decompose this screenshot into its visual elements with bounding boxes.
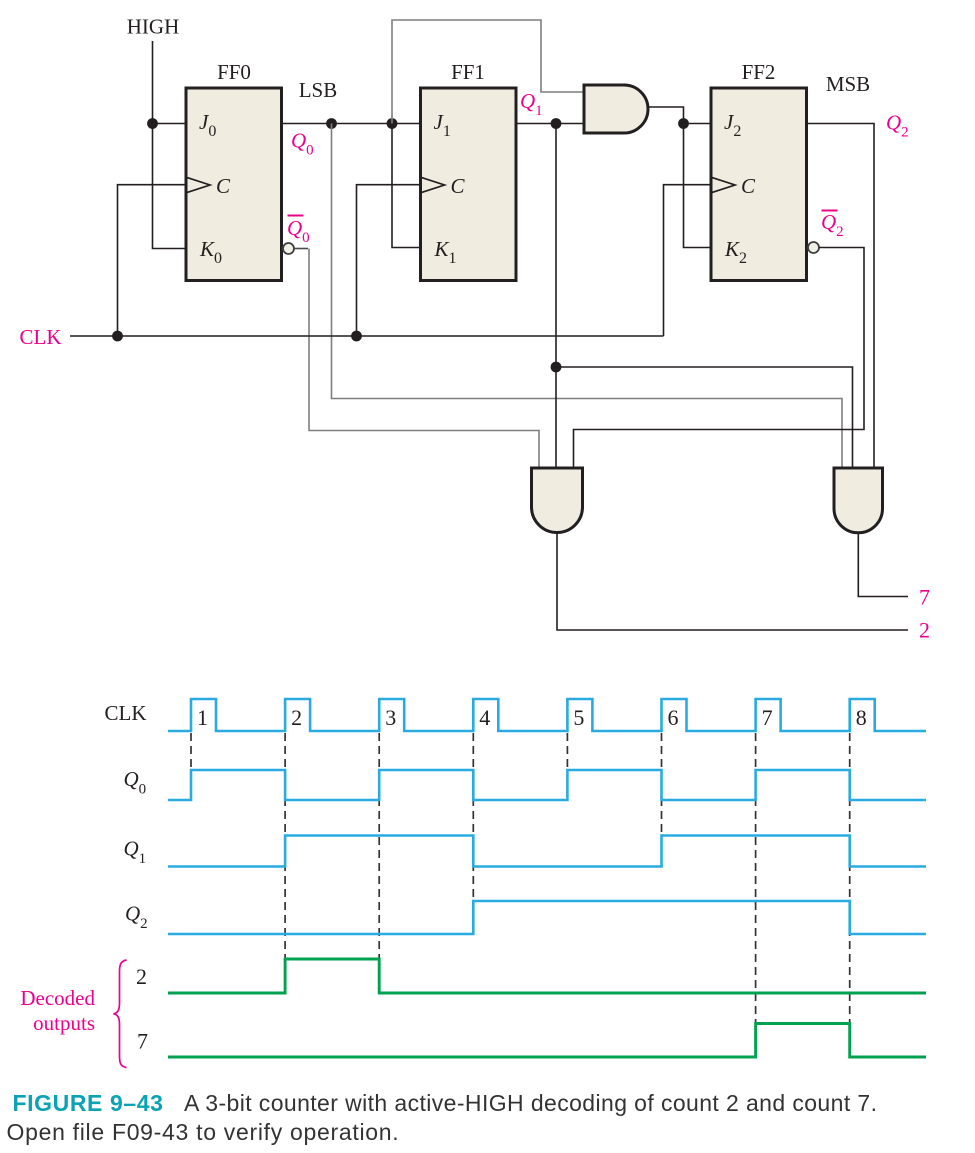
wire FF0 clock from CLK bus — [118, 185, 187, 336]
wire Q1 drop to decode-2 gate — [555, 124, 557, 469]
svg-text:LSB: LSB — [299, 78, 338, 102]
svg-text:A 3-bit counter with active-HI: A 3-bit counter with active-HIGH decodin… — [184, 1090, 877, 1116]
flip-flop FF0 — [186, 88, 282, 281]
waveform Q0 — [168, 770, 926, 800]
label decoded outputs — [20, 986, 95, 1035]
wire decode-2 output — [557, 533, 908, 631]
node J1 junction — [387, 118, 398, 129]
node Q1 lower branch — [551, 362, 562, 373]
node J0 (HIGH junction) — [147, 118, 158, 129]
dashed line CLK7 — [755, 733, 757, 1024]
svg-text:2: 2 — [919, 618, 930, 643]
svg-text:outputs: outputs — [33, 1011, 95, 1035]
svg-text:CLK: CLK — [105, 701, 147, 725]
AND gate U1 — [584, 85, 648, 133]
wire Q0-bar to decode-2 gate (gray) — [294, 248, 308, 250]
svg-text:FF2: FF2 — [742, 60, 776, 84]
dashed line CLK4 — [472, 733, 474, 901]
svg-text:HIGH: HIGH — [127, 15, 180, 39]
svg-text:FF1: FF1 — [451, 60, 485, 84]
dashed line CLK6 — [661, 733, 663, 836]
dashed line CLK8 — [849, 733, 851, 1024]
dashed line CLK5 — [566, 733, 568, 770]
svg-text:MSB: MSB — [826, 72, 870, 96]
svg-text:4: 4 — [479, 705, 490, 730]
svg-text:7: 7 — [137, 1029, 148, 1054]
svg-text:8: 8 — [856, 705, 867, 730]
waveform Q1 — [168, 836, 926, 867]
svg-text:FF0: FF0 — [217, 60, 251, 84]
dashed line CLK2 — [284, 733, 286, 959]
svg-text:7: 7 — [919, 585, 930, 610]
AND gate decode-2 — [532, 468, 583, 533]
svg-text:7: 7 — [762, 705, 773, 730]
bubble Q0-bar — [283, 243, 294, 254]
wire HIGH to J0 node — [152, 41, 154, 124]
wire J0 input — [153, 123, 187, 125]
waveform CLK — [168, 699, 926, 731]
svg-text:2: 2 — [136, 964, 147, 989]
waveform Q2 — [168, 901, 926, 934]
label Q0-bar — [287, 216, 310, 247]
wire FF2 clock from CLK bus — [664, 185, 712, 336]
svg-text:2: 2 — [291, 705, 302, 730]
flip-flop FF2 — [711, 88, 807, 281]
node Q1 branch — [551, 118, 562, 129]
wire Q0 top loop to AND gate U1 (gray) — [392, 20, 584, 124]
svg-text:1: 1 — [197, 705, 208, 730]
wire J2-K2 tie — [684, 124, 712, 248]
wire Q1 output to U1 — [516, 123, 584, 125]
waveform decoded 7 — [168, 1024, 926, 1058]
dashed line CLK1 — [190, 733, 192, 770]
wire Q0 long run to decode-7 gate (gray) — [332, 124, 843, 469]
svg-text:CLK: CLK — [20, 325, 62, 349]
wire CLK bus — [70, 335, 664, 337]
wire Q0 output to J1 — [282, 123, 421, 125]
svg-text:C: C — [741, 174, 756, 198]
svg-text:6: 6 — [668, 705, 679, 730]
svg-text:Open file F09-43 to verify ope: Open file F09-43 to verify operation. — [7, 1119, 400, 1145]
node CLK to FF1 — [351, 331, 362, 342]
node Q0 branch — [326, 118, 337, 129]
wire J0-K0 tie — [153, 124, 187, 249]
svg-text:C: C — [451, 174, 466, 198]
label clock pulse numbers — [197, 705, 867, 730]
svg-text:Decoded: Decoded — [20, 986, 95, 1010]
node CLK to FF0 — [112, 331, 123, 342]
waveform decoded 2 — [168, 959, 926, 993]
svg-text:FIGURE 9–43: FIGURE 9–43 — [13, 1090, 164, 1116]
AND gate decode-7 — [834, 468, 883, 533]
label Q2-bar — [821, 210, 844, 240]
svg-text:5: 5 — [573, 705, 584, 730]
svg-text:3: 3 — [385, 705, 396, 730]
brace decoded outputs — [114, 960, 127, 1068]
wire decode-7 output — [858, 533, 908, 597]
flip-flop FF1 — [421, 88, 517, 281]
wire Q2-bar to decode-2 gate — [574, 248, 865, 469]
bubble Q2-bar — [808, 242, 819, 253]
wire U1 output to J2 — [648, 107, 711, 124]
wire FF1 clock from CLK bus — [357, 185, 421, 336]
wire Q1 branch to decode-7 gate — [556, 367, 853, 468]
wire J1-K1 tie — [392, 124, 421, 248]
wire Q2 output and drop to decode-7 gate — [807, 124, 875, 469]
dashed line CLK3 — [378, 733, 380, 959]
node J2 junction — [678, 118, 689, 129]
svg-text:C: C — [216, 174, 231, 198]
